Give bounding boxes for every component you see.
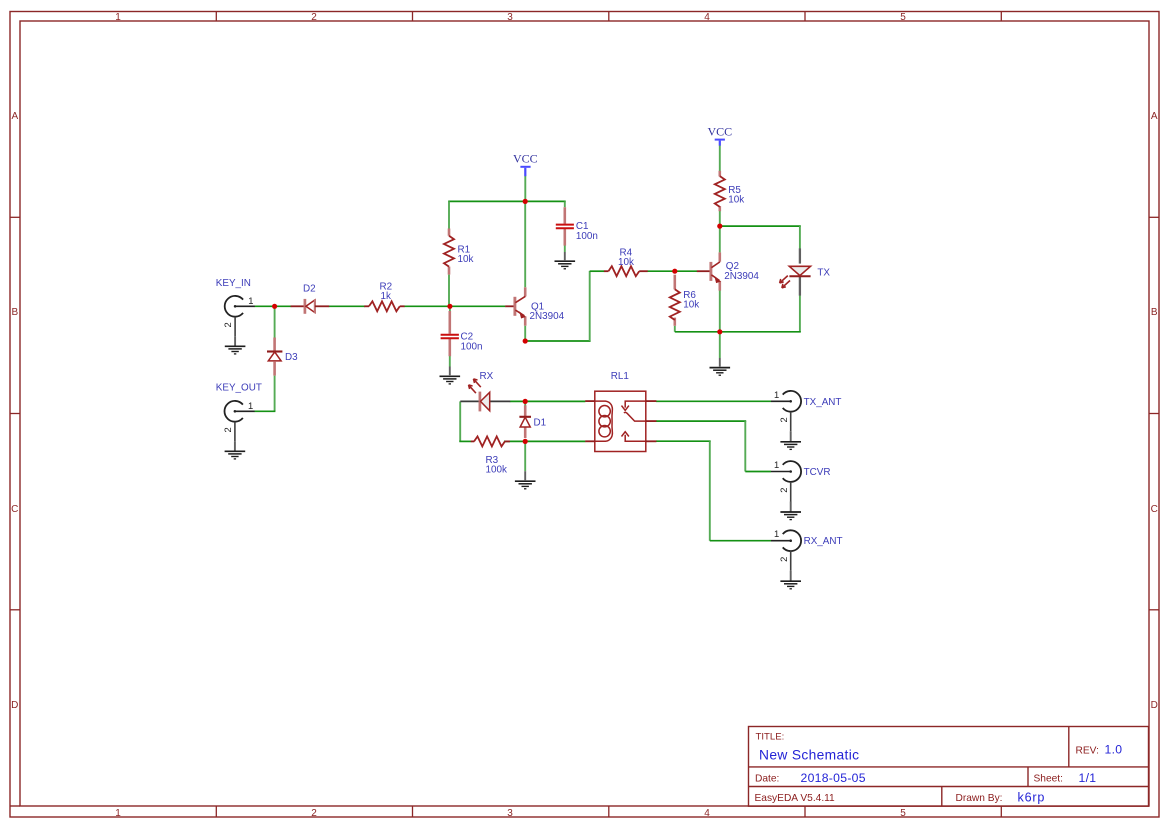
svg-text:2: 2	[311, 12, 317, 23]
wire relay common to TCVR riser	[656, 420, 746, 422]
wire D1 junction down to ground	[524, 441, 526, 471]
svg-text:2: 2	[778, 487, 789, 492]
wire RX LED right to junction	[510, 400, 526, 402]
svg-text:5: 5	[900, 808, 906, 819]
wire TX LED corner to emitter junction	[720, 331, 801, 333]
svg-text:TCVR: TCVR	[804, 467, 831, 478]
node VCC rail junction	[523, 199, 528, 204]
wire TX LED riser	[799, 226, 801, 248]
wire rail down to C1	[564, 201, 566, 207]
connector KEY_OUT	[224, 401, 242, 422]
pin stubs rose	[275, 171, 720, 438]
svg-text:1: 1	[774, 459, 779, 470]
node RX anode junction	[523, 399, 528, 404]
wire Q1 emitter down	[524, 326, 526, 341]
svg-text:D: D	[1151, 700, 1158, 711]
svg-text:RL1: RL1	[611, 371, 630, 382]
svg-text:10k: 10k	[728, 195, 744, 206]
wire emitter junction to R4 riser	[525, 340, 590, 342]
svg-text:D: D	[11, 700, 18, 711]
wire R4 right to junction	[648, 270, 677, 272]
wire R2 to base junction	[404, 305, 451, 307]
svg-text:1: 1	[115, 12, 121, 23]
svg-text:10k: 10k	[458, 254, 474, 265]
svg-text:C: C	[11, 504, 18, 515]
svg-text:KEY_OUT: KEY_OUT	[216, 383, 262, 394]
ground (C2)	[449, 367, 451, 376]
node Q1 emitter junction	[523, 338, 528, 343]
node Q1 base junction	[447, 304, 452, 309]
connector TCVR	[783, 461, 801, 482]
svg-text:A: A	[1151, 111, 1158, 122]
svg-text:2: 2	[778, 417, 789, 422]
ground (KEY_OUT pin2)	[225, 451, 246, 459]
net flag VCC (Q1)	[520, 166, 530, 168]
wire base junction to Q1 base	[450, 305, 506, 307]
wire TCVR riser to pin	[745, 471, 771, 473]
transistor Q2	[697, 270, 710, 272]
wire riser to R4 left	[590, 270, 605, 272]
wire C2 to ground stem	[449, 338, 451, 366]
capacitor C2	[441, 334, 459, 336]
wire relay contact1 to TX_ANT	[656, 400, 771, 402]
svg-text:B: B	[1151, 307, 1158, 318]
resistor R3	[471, 440, 475, 442]
svg-text:TX: TX	[817, 268, 830, 279]
wire KEY_IN pin to junction	[255, 305, 277, 307]
node R4/R6 junction	[672, 269, 677, 274]
svg-text:5: 5	[900, 12, 906, 23]
LED RX	[460, 400, 479, 402]
svg-text:2: 2	[222, 427, 233, 432]
svg-text:10k: 10k	[683, 300, 699, 311]
svg-text:k6rp: k6rp	[1018, 791, 1046, 805]
svg-text:REV:: REV:	[1076, 745, 1099, 756]
svg-text:KEY_IN: KEY_IN	[216, 278, 251, 289]
svg-text:TITLE:: TITLE:	[756, 732, 785, 743]
svg-text:VCC: VCC	[707, 124, 732, 138]
relay RL1	[595, 391, 646, 451]
svg-text:3: 3	[507, 12, 513, 23]
ground (KEY_IN pin2)	[225, 346, 246, 354]
svg-text:100n: 100n	[576, 231, 598, 242]
relay pins	[585, 401, 656, 441]
node KEY_IN junction	[272, 304, 277, 309]
wire left leg to R3	[459, 440, 471, 442]
svg-text:EasyEDA V5.4.11: EasyEDA V5.4.11	[755, 793, 836, 804]
svg-text:1: 1	[248, 400, 253, 411]
svg-text:VCC: VCC	[513, 152, 538, 166]
wire KEY_OUT pin to corner	[254, 410, 275, 412]
ground (TX_ANT pin2)	[780, 442, 801, 450]
svg-text:D3: D3	[285, 352, 298, 363]
wire D2 to R2	[329, 305, 365, 307]
svg-text:1: 1	[115, 808, 121, 819]
svg-text:1: 1	[248, 295, 253, 306]
resistor R6	[670, 289, 680, 320]
svg-text:1: 1	[774, 528, 779, 539]
node D1 anode junction	[523, 439, 528, 444]
wire D3 to KEY_OUT corner	[274, 376, 276, 412]
wire R3 right to D1 junction	[504, 440, 526, 442]
svg-text:C: C	[1151, 504, 1158, 515]
svg-text:1k: 1k	[381, 291, 391, 302]
wire D1 top stub	[524, 401, 526, 405]
wire TX LED bottom to corner	[799, 295, 801, 332]
svg-text:A: A	[11, 111, 18, 122]
wire rail down to R1	[448, 201, 450, 228]
resistor R4	[604, 270, 609, 272]
border frame bottom-left step	[10, 805, 20, 807]
wire KEY_IN junction down to D3	[274, 306, 276, 337]
wire C1 bottom	[564, 229, 566, 253]
wire RX LED junction to relay coil pin1	[525, 400, 585, 402]
svg-text:1/1: 1/1	[1079, 771, 1097, 785]
ground (D1 net)	[524, 471, 526, 480]
wire riser up to R4	[589, 271, 591, 341]
svg-text:TX_ANT: TX_ANT	[804, 397, 842, 408]
svg-text:2: 2	[778, 557, 789, 562]
svg-text:2018-05-05: 2018-05-05	[801, 771, 866, 785]
connector TX_ANT	[783, 391, 801, 412]
node Q2 emitter junction	[717, 329, 722, 334]
svg-text:2: 2	[311, 808, 317, 819]
resistor R5	[715, 176, 725, 207]
wire VCC2 stem to R5	[719, 145, 721, 171]
frame column ticks top/bottom	[216, 12, 1001, 818]
wire Q2 emitter junction to ground	[719, 332, 721, 358]
svg-text:New Schematic: New Schematic	[759, 747, 859, 762]
resistor R1	[444, 236, 454, 267]
svg-text:100n: 100n	[461, 341, 483, 352]
svg-text:Drawn By:: Drawn By:	[956, 793, 1003, 804]
wire Q2 emitter down to junction	[719, 290, 721, 331]
wire junction to Q2 base	[675, 270, 697, 272]
wire R6 bottom corner	[674, 326, 676, 332]
wire junction to D2 anode	[273, 305, 291, 307]
LED TX	[799, 248, 801, 263]
wire relay contact2 to RX_ANT riser	[656, 440, 711, 442]
wire collector junction to TX LED	[720, 225, 801, 227]
connector KEY_IN	[225, 296, 243, 317]
svg-text:D2: D2	[303, 284, 316, 295]
svg-text:3: 3	[507, 808, 513, 819]
wire R5 to collector junction	[719, 211, 721, 226]
svg-text:Sheet:: Sheet:	[1034, 774, 1063, 785]
wire base junction down to C2	[449, 306, 451, 313]
node Q2 collector junction	[717, 224, 722, 229]
net flag VCC (R5)	[715, 139, 725, 141]
ground (C1)	[564, 252, 566, 260]
ground (RX_ANT pin2)	[780, 581, 801, 589]
ground (Q2 emitter)	[719, 358, 721, 367]
wire TCVR riser down	[744, 421, 746, 471]
svg-text:2N3904: 2N3904	[724, 271, 759, 282]
wire RX_ANT riser to pin	[710, 540, 771, 542]
title block	[749, 727, 1149, 807]
svg-text:RX: RX	[480, 371, 494, 382]
wire RX LED left leg down	[459, 401, 461, 441]
svg-text:10k: 10k	[618, 257, 634, 268]
svg-text:4: 4	[704, 808, 710, 819]
svg-text:RX_ANT: RX_ANT	[804, 536, 843, 547]
diode D2	[291, 305, 304, 307]
svg-text:2: 2	[222, 322, 233, 327]
svg-text:1: 1	[774, 389, 779, 400]
frame row ticks left/right	[10, 217, 1159, 610]
diode D3	[267, 350, 282, 352]
capacitor C1	[556, 224, 574, 226]
svg-text:D1: D1	[534, 418, 547, 429]
wire Q2 collector up	[719, 226, 721, 252]
transistor Q1	[505, 305, 513, 307]
wire D1 junction to relay coil pin2	[525, 440, 585, 442]
svg-text:100k: 100k	[486, 465, 507, 476]
diode D1	[519, 416, 531, 418]
svg-text:B: B	[11, 307, 18, 318]
ground (TCVR pin2)	[780, 512, 801, 520]
resistor R2	[364, 305, 369, 307]
svg-text:Date:: Date:	[755, 774, 779, 785]
wire R6 corner to emitter junction	[675, 331, 721, 333]
wire RX_ANT riser down	[709, 441, 711, 541]
svg-text:1.0: 1.0	[1105, 743, 1123, 757]
wire R1 to base junction	[448, 275, 450, 307]
wire top rail R1/VCC/C1	[448, 200, 566, 202]
connector RX_ANT	[783, 530, 801, 551]
wire Q1 collector up to rail	[524, 201, 526, 287]
svg-text:4: 4	[704, 12, 710, 23]
wire VCC1 stem	[524, 176, 526, 202]
svg-text:2N3904: 2N3904	[530, 311, 565, 322]
